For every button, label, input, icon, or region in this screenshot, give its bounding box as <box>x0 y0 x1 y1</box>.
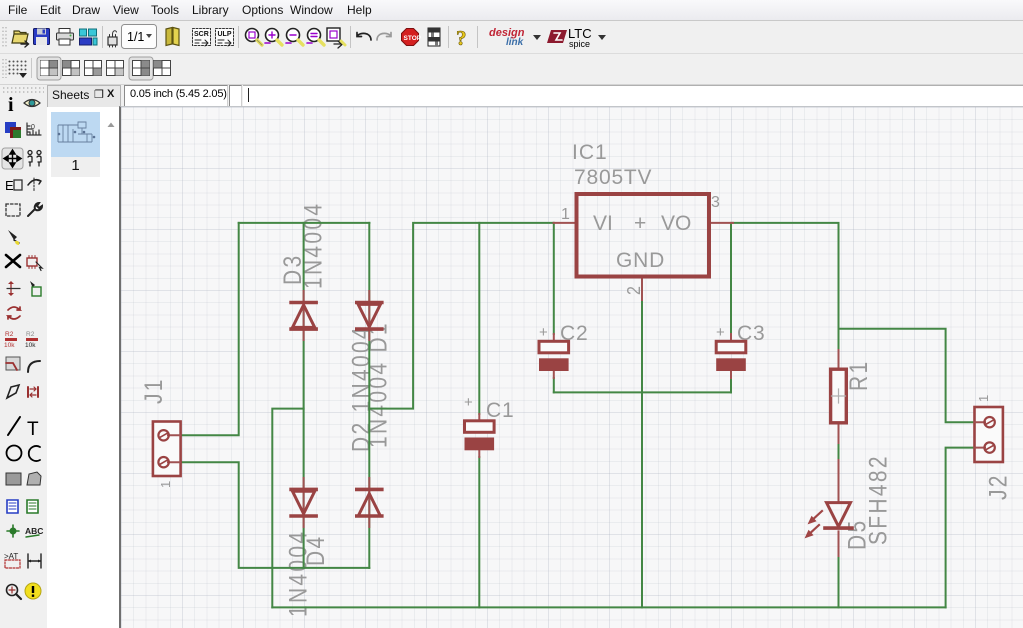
sheet combobox <box>122 25 157 49</box>
paste tool <box>30 281 41 296</box>
wire R1 to D5 <box>838 443 840 460</box>
svg-text:?: ? <box>456 26 467 50</box>
svg-text:VI: VI <box>593 212 613 235</box>
glue tool <box>8 230 19 245</box>
arc tool <box>29 446 40 461</box>
connector J2 <box>975 407 1003 462</box>
polygonize tool <box>7 385 19 398</box>
svg-text:1: 1 <box>561 206 570 223</box>
wire D3-D4 vertical <box>303 223 305 568</box>
diode D3 <box>291 303 316 330</box>
toolbar row 1 <box>0 21 1023 54</box>
erc tool <box>7 585 22 600</box>
wire GND vertical <box>641 300 643 607</box>
junction tool <box>7 525 19 537</box>
svg-text:STOP: STOP <box>404 35 422 42</box>
capacitor C1 <box>465 421 495 451</box>
wire J1 pin1 to AC1 rail <box>181 223 239 435</box>
wire C3 minus down <box>730 378 732 392</box>
svg-text:J1: J1 <box>139 377 167 404</box>
svg-text:D4: D4 <box>301 535 329 566</box>
svg-text:1: 1 <box>976 395 991 402</box>
wire C3 branch <box>730 223 732 334</box>
zoom in <box>265 29 282 46</box>
pin lead D4 <box>303 478 305 527</box>
label tool <box>25 526 43 537</box>
svg-text:ULP: ULP <box>218 31 232 38</box>
wire J2 pin2 to bottom rail <box>946 448 975 608</box>
traffic light icon <box>428 28 440 46</box>
pin lead C2 <box>553 334 555 378</box>
svg-text:link: link <box>506 37 524 48</box>
svg-text:1N4004 D1: 1N4004 D1 <box>364 321 392 448</box>
svg-text:ABC: ABC <box>25 526 43 536</box>
net tool <box>27 500 38 513</box>
window icon 3 <box>85 61 102 76</box>
svg-text:0: 0 <box>31 124 35 131</box>
design link logo <box>489 27 541 48</box>
pin lead IC1 pin2 <box>641 277 643 301</box>
separator <box>102 26 103 48</box>
zoom fit <box>246 29 263 46</box>
svg-text:10k: 10k <box>25 342 36 349</box>
wire D1-D2 vertical <box>368 223 370 568</box>
svg-text:E: E <box>5 178 14 193</box>
mirror tool <box>28 178 41 192</box>
separator <box>477 26 478 48</box>
use icon chip <box>108 31 117 47</box>
svg-text:spice: spice <box>569 39 590 49</box>
window icon 2 <box>63 61 80 76</box>
connector J1 <box>153 422 181 477</box>
stop icon <box>402 29 422 46</box>
print icon <box>57 29 74 46</box>
pin lead C3 <box>730 334 732 378</box>
rectangle group select tool <box>6 204 20 216</box>
separator <box>238 26 239 48</box>
grid icon <box>9 61 28 79</box>
svg-text:SFH482: SFH482 <box>864 454 892 545</box>
zoom select <box>307 29 324 46</box>
pinswap tool <box>28 387 38 397</box>
value tool <box>25 331 38 349</box>
bus tool <box>7 500 18 513</box>
wire D5 to bottom rail <box>838 556 840 607</box>
ULP icon <box>216 29 234 47</box>
script SCR icon <box>193 29 211 47</box>
svg-text:SCR: SCR <box>194 31 209 38</box>
group tool <box>28 151 41 167</box>
wire VO branch to J2 <box>839 329 975 423</box>
coordinate display <box>124 85 228 107</box>
miter tool <box>6 357 20 370</box>
line tool <box>8 417 20 435</box>
svg-text:i: i <box>8 94 14 116</box>
undo icon <box>357 33 371 41</box>
attribute tool <box>4 552 20 568</box>
svg-text:3: 3 <box>711 194 720 211</box>
svg-text:10k: 10k <box>4 342 15 349</box>
wire C1 to bottom rail <box>478 457 480 607</box>
rect tool <box>6 473 21 485</box>
wire C1 branch <box>478 223 480 414</box>
svg-text:C1: C1 <box>486 399 514 422</box>
diode D1 <box>357 303 382 330</box>
svg-text:+: + <box>634 212 646 235</box>
open icon <box>12 31 29 47</box>
pin lead D2 <box>368 478 370 527</box>
mark tool <box>27 123 41 135</box>
wire plus branch <box>369 223 553 409</box>
svg-text:R1: R1 <box>844 360 872 391</box>
replace tool <box>8 307 20 319</box>
schematic text labels <box>139 141 1012 617</box>
circle tool <box>7 446 22 461</box>
svg-text:+: + <box>539 324 548 341</box>
sheets header <box>47 85 121 108</box>
svg-text:R2: R2 <box>5 331 14 338</box>
add part tool <box>27 256 42 271</box>
show tool eye <box>24 100 40 107</box>
separator <box>350 26 351 48</box>
window icon 4 <box>107 61 124 76</box>
separator <box>448 26 449 48</box>
svg-text:VO: VO <box>661 212 691 235</box>
pin lead R1 <box>838 350 840 443</box>
toolbar row 2 <box>0 54 1023 85</box>
arc corner tool <box>28 361 40 372</box>
delete tool <box>6 255 20 267</box>
diode D4 <box>291 489 316 516</box>
svg-text:1/1: 1/1 <box>127 30 144 44</box>
wire minus branch <box>272 409 303 608</box>
wire C2 minus down <box>553 378 555 392</box>
window icon 5 pressed <box>129 57 153 80</box>
svg-text:7805TV: 7805TV <box>574 166 652 189</box>
wrench change tool <box>28 203 42 216</box>
window icon 1 pressed <box>37 57 61 80</box>
svg-text:GND: GND <box>616 249 665 272</box>
capacitor C2 <box>539 341 569 371</box>
LED D5 <box>825 503 852 528</box>
board editor icon <box>80 29 98 45</box>
pin lead C1 <box>478 414 480 457</box>
wire top rail AC1 <box>239 222 370 224</box>
wire C2 branch <box>553 223 555 334</box>
stretch tool <box>7 281 20 296</box>
diode D2 <box>357 489 382 516</box>
resistor R1 origin cross <box>832 389 846 403</box>
redo icon <box>377 33 391 41</box>
zoom out <box>286 29 303 46</box>
wire gnd link C2-C3 <box>554 391 731 393</box>
svg-text:1: 1 <box>158 481 173 488</box>
wire bottom rail <box>272 606 945 608</box>
svg-text:+: + <box>716 324 725 341</box>
svg-text:+: + <box>464 394 473 411</box>
menu bar <box>0 0 1023 21</box>
library book icon <box>166 28 179 46</box>
move tool pressed <box>2 148 23 169</box>
pin lead D1 <box>368 291 370 340</box>
smash tool <box>4 331 17 349</box>
pin lead IC1 pin3 <box>709 222 733 224</box>
sheets panel <box>105 107 119 628</box>
wire VO rail <box>733 223 839 350</box>
pin lead D3 <box>303 291 305 340</box>
canvas with schematic <box>119 106 1023 628</box>
svg-text:J2: J2 <box>984 473 1012 500</box>
window icon 6 <box>154 61 171 76</box>
layer tool <box>5 122 21 138</box>
svg-text:R2: R2 <box>26 331 35 338</box>
pin lead IC1 pin1 <box>554 222 577 224</box>
dimension tool <box>28 554 41 568</box>
sidebar <box>0 85 48 628</box>
copy tool <box>5 178 22 193</box>
pin lead D5 <box>838 460 840 556</box>
IC IC1 7805TV regulator body <box>577 194 710 277</box>
errors tool <box>25 583 41 599</box>
polygon tool <box>27 472 41 485</box>
zoom redraw <box>327 28 345 48</box>
LED D5 emission arrows <box>806 511 823 538</box>
resistor R1 <box>831 369 847 423</box>
svg-text:IC1: IC1 <box>572 141 608 164</box>
wire J1 pin2 to AC2 <box>181 462 370 568</box>
LTC spice logo <box>547 26 606 49</box>
save icon <box>34 29 50 46</box>
capacitor C3 <box>716 341 746 371</box>
separator <box>31 58 32 78</box>
svg-text:T: T <box>27 419 39 440</box>
